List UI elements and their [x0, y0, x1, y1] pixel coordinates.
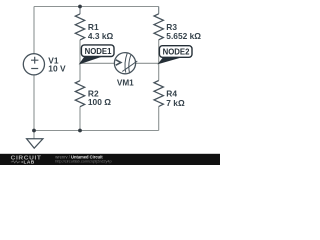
label V1 value [48, 56, 66, 74]
svg-text:7 kΩ: 7 kΩ [166, 98, 185, 108]
resistor R2 [75, 81, 84, 107]
svg-text:100 Ω: 100 Ω [88, 97, 111, 107]
wire: ground stub [33, 131, 35, 139]
wire: R1 bottom lead to NODE1 junction [79, 40, 81, 64]
label R1 value [88, 22, 114, 41]
junction: bottom rail / R2 [78, 129, 82, 133]
resistor R4 [154, 81, 163, 107]
wire: R4 top lead [158, 64, 160, 81]
node NODE1 flag [80, 45, 114, 64]
wire: R2 top lead [79, 64, 81, 81]
wire: R4 bottom lead [158, 107, 160, 131]
junction: top rail / R1 [78, 5, 82, 9]
wire: R3 top lead [158, 7, 160, 14]
wire: R1 top lead [79, 7, 81, 15]
svg-text:4.3 kΩ: 4.3 kΩ [88, 31, 114, 41]
wire: voltmeter to NODE2 junction [136, 62, 159, 64]
resistor R1 [75, 14, 84, 40]
footer attribution bar [0, 154, 220, 165]
svg-text:10 V: 10 V [48, 63, 66, 73]
voltmeter VM1 [114, 53, 137, 74]
wire: R3 bottom lead to NODE2 junction [158, 40, 160, 64]
label R3 value [166, 22, 201, 41]
voltage source V1 [23, 54, 44, 75]
svg-text:R4: R4 [166, 89, 177, 99]
wire: R2 bottom lead [79, 107, 81, 131]
label R4 value [166, 89, 185, 109]
wire: NODE1 junction to voltmeter [80, 62, 114, 64]
svg-text:http://circuitlab.com/c/q9j2nd: http://circuitlab.com/c/q9j2nd2y4p [55, 159, 111, 163]
resistor R3 [154, 14, 163, 40]
svg-text:▪LAB: ▪LAB [21, 160, 34, 165]
ground [27, 139, 43, 148]
svg-text:5.652 kΩ: 5.652 kΩ [166, 31, 201, 41]
CircuitLab logo [11, 156, 42, 165]
wire: bottom rail [34, 130, 159, 132]
label R2 value [88, 88, 111, 107]
svg-text:VM1: VM1 [117, 79, 134, 88]
wire: V1 bottom lead [33, 75, 35, 131]
svg-text:NODE2: NODE2 [163, 48, 191, 57]
junction: bottom rail / ground [32, 129, 36, 133]
wire: V1 top lead up to top rail [33, 7, 35, 54]
node NODE2 flag [159, 46, 192, 64]
svg-text:NODE1: NODE1 [85, 47, 113, 56]
wire: top rail [34, 6, 159, 8]
